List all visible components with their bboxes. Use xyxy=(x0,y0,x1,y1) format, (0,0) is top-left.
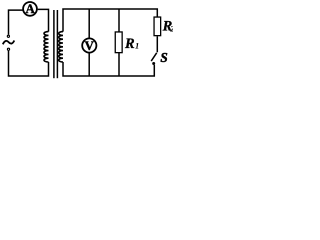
svg-text:S: S xyxy=(160,50,167,65)
svg-text:2: 2 xyxy=(169,24,173,34)
svg-text:A: A xyxy=(25,2,35,16)
svg-text:V: V xyxy=(85,39,95,53)
svg-text:1: 1 xyxy=(135,40,139,50)
svg-text:R: R xyxy=(124,36,135,52)
